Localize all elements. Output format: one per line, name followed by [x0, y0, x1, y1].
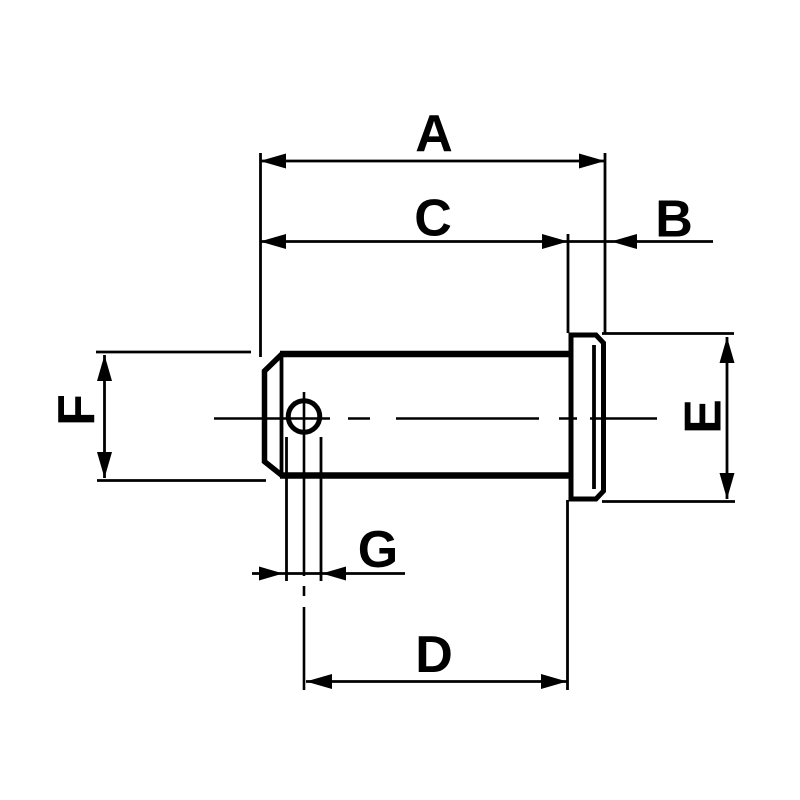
svg-text:F: F [48, 394, 106, 426]
dimension line D [306, 680, 567, 683]
dimension line E [726, 337, 729, 499]
E bottom extension line [602, 500, 735, 503]
G extension line left [285, 437, 288, 581]
arrowhead E bottom [720, 473, 735, 499]
extension line right (flange right edge, for A and B) [604, 153, 607, 333]
svg-text:G: G [358, 521, 398, 579]
arrowhead D left [306, 674, 332, 689]
arrowhead B [611, 234, 637, 249]
hole circle [288, 401, 320, 433]
dimension line C and B (shared line) [260, 240, 713, 243]
svg-text:C: C [414, 190, 452, 248]
arrowhead C left [260, 234, 286, 249]
extension line (flange left edge, for C) [567, 234, 570, 333]
pin chamfer transition line [280, 356, 284, 473]
arrowhead G left [259, 567, 283, 581]
svg-text:E: E [675, 399, 733, 434]
E top extension line [602, 332, 734, 335]
pin body top edge [280, 351, 571, 358]
D extension line right [566, 500, 569, 690]
horizontal centerline [214, 417, 657, 420]
G dimension line [252, 572, 405, 575]
arrowhead D right [541, 674, 567, 689]
arrowhead E top [720, 337, 735, 363]
arrowhead A left [260, 154, 286, 169]
G extension line right [320, 437, 323, 581]
flange inner rim line [592, 345, 596, 489]
arrowhead A right [579, 154, 605, 169]
F top extension line [96, 351, 251, 354]
arrowhead G right [322, 567, 346, 581]
extension line left (pin left end, for A and C) [259, 153, 262, 357]
arrowhead C right [542, 234, 568, 249]
svg-text:B: B [655, 191, 693, 249]
pin left end chamfered outline [265, 354, 283, 476]
arrowhead F top [97, 355, 112, 381]
F bottom extension line [97, 479, 266, 482]
dimension line A [260, 160, 605, 163]
svg-text:D: D [415, 626, 453, 684]
dimension line F [103, 355, 106, 478]
pin body bottom edge [280, 472, 571, 479]
svg-text:A: A [415, 105, 453, 163]
vertical centerline through hole [303, 392, 306, 690]
flange head outline [571, 335, 604, 499]
arrowhead F bottom [97, 452, 112, 478]
